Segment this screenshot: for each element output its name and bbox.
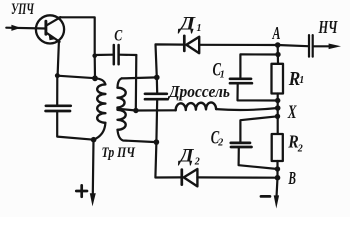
node X	[275, 105, 281, 111]
minus sign	[261, 195, 270, 198]
node C2 top junction	[275, 114, 280, 119]
node C-left junction	[92, 53, 97, 58]
svg-text:Д: Д	[177, 15, 197, 35]
wire emitter down	[58, 42, 59, 76]
node C1 top junction	[275, 52, 280, 57]
wire secondary top to D1 junction	[122, 77, 157, 78]
capacitor C4 emitter bypass	[56, 76, 58, 105]
svg-text:C: C	[114, 28, 122, 45]
inductor L1 choke	[176, 102, 216, 110]
input arrowhead	[11, 25, 20, 31]
svg-text:1: 1	[197, 23, 202, 34]
svg-text:1: 1	[299, 75, 304, 86]
svg-text:1: 1	[220, 70, 225, 81]
node junction secondary top	[154, 75, 160, 81]
svg-text:2: 2	[217, 137, 223, 148]
capacitor C1	[240, 54, 278, 77]
node C2 bottom junction	[275, 166, 280, 171]
svg-text:Тр ПЧ: Тр ПЧ	[102, 145, 136, 161]
node C1 bottom junction	[275, 98, 280, 103]
svg-text:Д: Д	[177, 147, 195, 167]
node junction secondary bottom	[154, 139, 160, 145]
capacitor C3 secondary tuning	[156, 77, 159, 93]
svg-text:2: 2	[297, 144, 303, 155]
diode D1	[156, 44, 184, 77]
plus sign	[76, 190, 87, 193]
svg-text:2: 2	[194, 156, 200, 167]
node collector-primary junction	[92, 75, 98, 81]
node center tap junction	[133, 108, 138, 113]
node A	[275, 42, 281, 48]
wire C right lead down to center tap	[135, 55, 138, 111]
wire B down arrow	[277, 178, 278, 197]
wire emitter to primary junction	[57, 76, 95, 79]
svg-text:УПЧ: УПЧ	[11, 1, 35, 18]
capacitor C coupling	[95, 54, 113, 56]
wire collector top	[60, 17, 95, 56]
transformer T1 primary	[95, 78, 105, 84]
capacitor C5 output	[278, 45, 308, 46]
wire center tap to choke	[118, 109, 176, 111]
output arrowhead	[329, 44, 341, 50]
capacitor C2	[240, 116, 277, 142]
node B	[275, 175, 281, 181]
wire plus arrow	[92, 140, 95, 195]
node plus junction	[91, 137, 97, 143]
wire A down to R1	[277, 45, 279, 64]
svg-text:НЧ: НЧ	[318, 17, 338, 37]
wire input line to base	[6, 27, 46, 30]
node emitter junction	[55, 73, 60, 78]
diode D2	[155, 142, 180, 177]
svg-text:Дроссель: Дроссель	[167, 82, 230, 101]
resistor R2	[272, 134, 283, 161]
transistor VT1	[36, 15, 64, 43]
resistor R1	[272, 64, 284, 94]
svg-text:A: A	[272, 23, 281, 43]
transformer T1 secondary	[118, 78, 122, 87]
svg-text:B: B	[288, 168, 296, 188]
svg-text:X: X	[287, 102, 297, 123]
